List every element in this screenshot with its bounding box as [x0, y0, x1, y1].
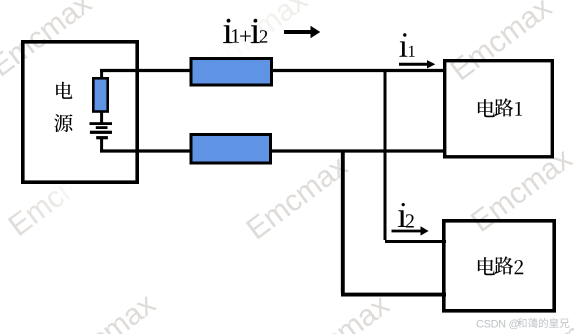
circuit 2 box — [444, 221, 554, 311]
text 电路2 (circuit 2) — [478, 256, 523, 275]
wire horizontal into circuit 2 bottom terminal — [341, 293, 446, 297]
battery E — [90, 122, 113, 139]
wire bottom feeder — [100, 149, 446, 152]
label i2 — [398, 203, 414, 228]
wire stub to internal resistor — [100, 71, 103, 80]
current arrow i2 — [392, 226, 429, 235]
svg-text:CSDN @: CSDN @ — [476, 318, 519, 330]
label i1+i2 — [223, 19, 267, 43]
resistor internal impedance (blue) — [93, 78, 107, 111]
wire battery to bottom feeder — [100, 139, 103, 152]
wire horizontal into circuit 2 top terminal — [385, 240, 446, 243]
text 电源 (power source) — [54, 82, 72, 132]
svg-text:Emcmax: Emcmax — [3, 146, 116, 243]
impedance Z2 bottom line (blue) — [191, 135, 271, 164]
svg-text:Emcmax: Emcmax — [48, 288, 161, 334]
text 电路1 (circuit 1) — [478, 98, 522, 117]
wire top feeder — [100, 69, 446, 72]
watermark footer — [476, 318, 569, 330]
svg-text:Emcmax: Emcmax — [445, 0, 558, 87]
label i1 — [399, 33, 414, 56]
wire resistor to battery — [100, 111, 103, 123]
impedance Z1 top line (blue) — [191, 59, 272, 86]
circuit 1 box — [445, 61, 553, 157]
power source box — [23, 42, 137, 182]
current arrow i1+i2 — [284, 26, 320, 39]
current arrow i1 — [399, 60, 435, 68]
wire branch vertical circuit 2 return — [341, 150, 345, 294]
wire branch vertical to circuit 2 top — [384, 69, 387, 240]
